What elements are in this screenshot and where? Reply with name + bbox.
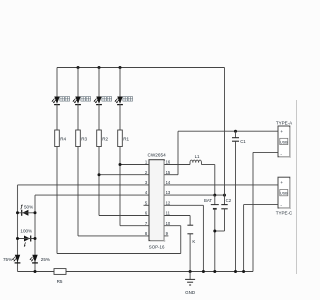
label 100% xyxy=(20,229,32,234)
node junction top rail at R2 column xyxy=(98,66,101,69)
LED D1 white torch xyxy=(115,97,123,105)
svg-text:16: 16 xyxy=(166,160,171,165)
svg-text:75%: 75% xyxy=(3,257,12,262)
wire pin10 under IC to R4 column xyxy=(57,253,181,255)
pin number 11 xyxy=(166,211,171,216)
node pin2/R2 junction xyxy=(98,173,101,176)
wire rail to LED white xyxy=(119,68,121,97)
label yellow lamp (CJK) xyxy=(102,97,112,102)
resistor R5 xyxy=(54,269,66,275)
svg-text:CW2654: CW2654 xyxy=(147,152,166,157)
node junction top rail at R1 column xyxy=(119,66,122,69)
wire USB TYPE-A minus to bus xyxy=(253,152,278,271)
label 25% xyxy=(41,257,50,262)
node C2 top junction xyxy=(223,194,226,197)
wire pin10 right then down xyxy=(164,226,181,254)
svg-text:C1: C1 xyxy=(240,139,246,144)
wire pin1 to R1 xyxy=(120,164,149,166)
svg-text:15: 15 xyxy=(166,170,171,175)
wire pin16 to L1 xyxy=(164,164,190,166)
wire pin11 right and down xyxy=(164,216,190,226)
svg-text:GND: GND xyxy=(185,290,196,295)
label GND xyxy=(185,290,196,295)
wire USB TYPE-C minus to bus xyxy=(244,205,278,272)
pin number 9 xyxy=(166,231,169,236)
label R4 xyxy=(60,136,66,141)
pin number 16 xyxy=(166,160,171,165)
label TYPE-C xyxy=(276,210,293,215)
wire pin7 from R1 column xyxy=(120,225,149,227)
svg-text:BAT: BAT xyxy=(204,198,212,203)
op-amp-style IC U1 CW2654 SOP-16 body xyxy=(149,160,165,242)
pin 9 stub NC xyxy=(164,235,168,237)
node pin12/bus junction xyxy=(202,270,205,273)
pin number 7 xyxy=(145,221,148,226)
wire pin14 to USB TYPE-C plus xyxy=(164,184,278,186)
pin number 8 xyxy=(145,231,148,236)
node 50% LED left junction xyxy=(16,211,19,214)
resistor R3 xyxy=(76,130,81,147)
pin number 1 xyxy=(145,160,148,165)
pin number 10 xyxy=(166,221,171,226)
LED D5 50% (points left) xyxy=(18,205,36,216)
node BAT plus junction xyxy=(213,194,216,197)
wire R3 column down xyxy=(77,147,79,236)
battery BAT xyxy=(211,195,219,271)
pin 5 stub NC xyxy=(144,204,150,206)
capacitor C1 xyxy=(232,131,239,141)
label 75% xyxy=(3,257,12,262)
svg-text:R5: R5 xyxy=(57,279,63,284)
svg-text:50%: 50% xyxy=(24,204,33,209)
sheet border fragment xyxy=(296,100,298,274)
pin number 5 xyxy=(145,200,148,205)
wire ground bus xyxy=(18,271,254,273)
pin number 14 xyxy=(166,180,171,185)
label L1 xyxy=(195,154,200,159)
node junction top rail at R3 column xyxy=(77,66,80,69)
pin number 6 xyxy=(145,211,148,216)
svg-text:USB: USB xyxy=(280,192,288,196)
wire pin2 to R2 xyxy=(99,174,149,176)
pin number 3 xyxy=(145,180,148,185)
wire LED white to resistor R1 xyxy=(119,104,121,130)
label R3 xyxy=(81,136,87,141)
wire VBAT top rail xyxy=(57,67,225,69)
switch K xyxy=(187,225,193,271)
node TYPE-C minus/bus junction xyxy=(242,270,245,273)
node 100% LED right junction xyxy=(34,237,37,240)
svg-text:11: 11 xyxy=(166,211,171,216)
label CW2654 xyxy=(147,152,166,157)
svg-text:R3: R3 xyxy=(81,136,87,141)
svg-text:TYPE-A: TYPE-A xyxy=(276,120,292,125)
svg-text:10: 10 xyxy=(166,221,171,226)
inductor L1 xyxy=(190,160,201,164)
wire pin4 to battery-LED right rail xyxy=(35,194,149,196)
node pin1/R1 junction xyxy=(119,163,122,166)
svg-text:C2: C2 xyxy=(226,198,232,203)
pin number 13 xyxy=(166,190,171,195)
label R5 xyxy=(57,279,63,284)
LED D2 yellow torch xyxy=(94,97,102,105)
LED D4 blue torch xyxy=(52,97,60,105)
label K xyxy=(192,239,195,244)
resistor R1 xyxy=(118,130,123,147)
svg-text:R2: R2 xyxy=(102,136,108,141)
svg-text:R1: R1 xyxy=(123,136,129,141)
svg-text:14: 14 xyxy=(166,180,171,185)
LED D3 red torch xyxy=(73,97,81,105)
svg-text:100%: 100% xyxy=(20,229,32,234)
connector USB TYPE-A xyxy=(278,126,291,158)
svg-text:R4: R4 xyxy=(60,136,66,141)
pin number 12 xyxy=(166,200,171,205)
label blue lamp (CJK) xyxy=(60,97,70,102)
resistor R2 xyxy=(97,130,102,147)
wire VOUT-A to USB TYPE-A plus xyxy=(178,130,278,132)
svg-text:SOP-16: SOP-16 xyxy=(149,245,165,250)
wire pin15 up to VOUT-A xyxy=(177,131,179,175)
label R2 xyxy=(102,136,108,141)
wire pin3 to battery-LED left rail xyxy=(18,184,150,186)
wire LED blue to resistor R4 xyxy=(56,104,58,130)
wire left rail x17.5 down xyxy=(17,185,19,272)
svg-text:+: + xyxy=(280,130,283,135)
label R1 xyxy=(123,136,129,141)
svg-text:25%: 25% xyxy=(41,257,50,262)
wire R4 column down xyxy=(56,147,58,254)
LED D7 75% xyxy=(12,255,20,263)
wire pin8 from R3 column xyxy=(78,235,149,237)
label 50% xyxy=(24,204,33,209)
node BAT column/link junction xyxy=(213,230,216,233)
wire C2 bottom link to BAT column xyxy=(215,230,225,232)
label white lamp (CJK) xyxy=(123,97,133,102)
wire R1 column down xyxy=(119,147,121,226)
wire pin13 to BAT node xyxy=(164,194,224,196)
connector USB TYPE-C xyxy=(278,177,291,209)
ground GND xyxy=(185,272,195,286)
svg-text:L1: L1 xyxy=(195,154,200,159)
pin number 2 xyxy=(145,170,148,175)
node 100% LED left junction xyxy=(16,237,19,240)
wire rail to LED blue xyxy=(56,68,58,97)
wire L1 to BAT node xyxy=(201,165,214,196)
wire C1 to ground bus xyxy=(235,141,237,271)
wire LED yellow to resistor R2 xyxy=(98,104,100,130)
capacitor C2 xyxy=(221,195,227,231)
svg-text:TYPE-C: TYPE-C xyxy=(276,210,293,215)
LED D8 25% xyxy=(30,255,38,263)
wire pin15 right xyxy=(164,174,178,176)
svg-text:USB: USB xyxy=(280,140,288,144)
label C1 xyxy=(240,139,246,144)
wire rail to LED red xyxy=(77,68,79,97)
resistor R4 xyxy=(55,130,60,147)
label SOP-16 xyxy=(149,245,165,250)
wire rail to LED yellow xyxy=(98,68,100,97)
label TYPE-A xyxy=(276,120,292,125)
pin number 4 xyxy=(145,190,148,195)
node 50% LED right junction xyxy=(34,211,37,214)
wire LED red to resistor R3 xyxy=(77,104,79,130)
svg-text:12: 12 xyxy=(166,200,171,205)
node C1 tap junction xyxy=(234,130,237,133)
wire pin12 right and down to bus xyxy=(164,205,203,271)
wire right rail x35 down xyxy=(34,195,36,271)
label BAT xyxy=(204,198,212,203)
node BAT/bus junction xyxy=(213,270,216,273)
svg-text:K: K xyxy=(192,239,195,244)
node C1/bus junction xyxy=(234,270,237,273)
node switch/bus junction xyxy=(189,270,192,273)
pin number 15 xyxy=(166,170,171,175)
wire R2 column down xyxy=(98,147,100,216)
LED D6 100% (points right) xyxy=(18,236,36,247)
svg-text:13: 13 xyxy=(166,190,171,195)
wire top rail down to BAT net xyxy=(224,68,226,196)
node bus/25%LED junction xyxy=(34,270,37,273)
wire pin6 from R2 column xyxy=(99,215,149,217)
label red lamp (CJK) xyxy=(81,97,91,102)
svg-text:+: + xyxy=(280,181,283,186)
label C2 xyxy=(226,198,232,203)
